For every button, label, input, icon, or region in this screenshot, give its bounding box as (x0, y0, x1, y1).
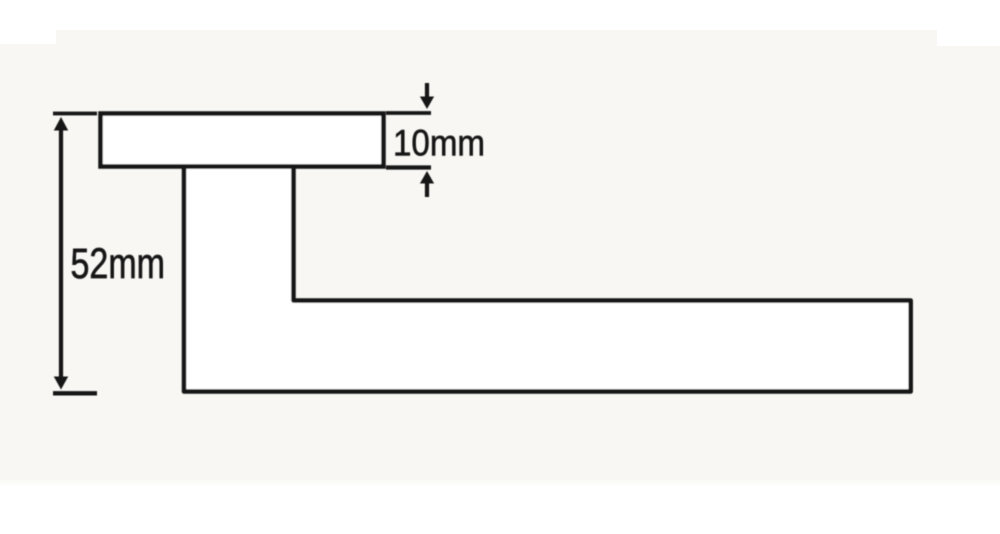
dimension 10mm upper arrowhead pointing down (420, 97, 434, 110)
dimension 52mm vertical stem (59, 126, 63, 380)
dimension 52mm bottom tick (53, 391, 97, 395)
handle lever and neck outline (184, 166, 911, 392)
svg-text:10mm: 10mm (393, 123, 485, 164)
dimension 10mm bottom tick (386, 165, 431, 169)
dimension 52mm top arrowhead (54, 117, 68, 131)
dimension 10mm lower arrow stem (425, 183, 429, 197)
rose plate rectangle (101, 114, 384, 167)
dimension 10mm lower arrowhead pointing up (420, 171, 434, 184)
dimension 52mm bottom arrowhead (54, 377, 68, 390)
dimension 10mm upper arrow stem (425, 83, 429, 98)
dimension 10mm top tick (386, 111, 431, 115)
dimension 52mm top tick (53, 112, 97, 116)
svg-text:52mm: 52mm (71, 241, 166, 288)
